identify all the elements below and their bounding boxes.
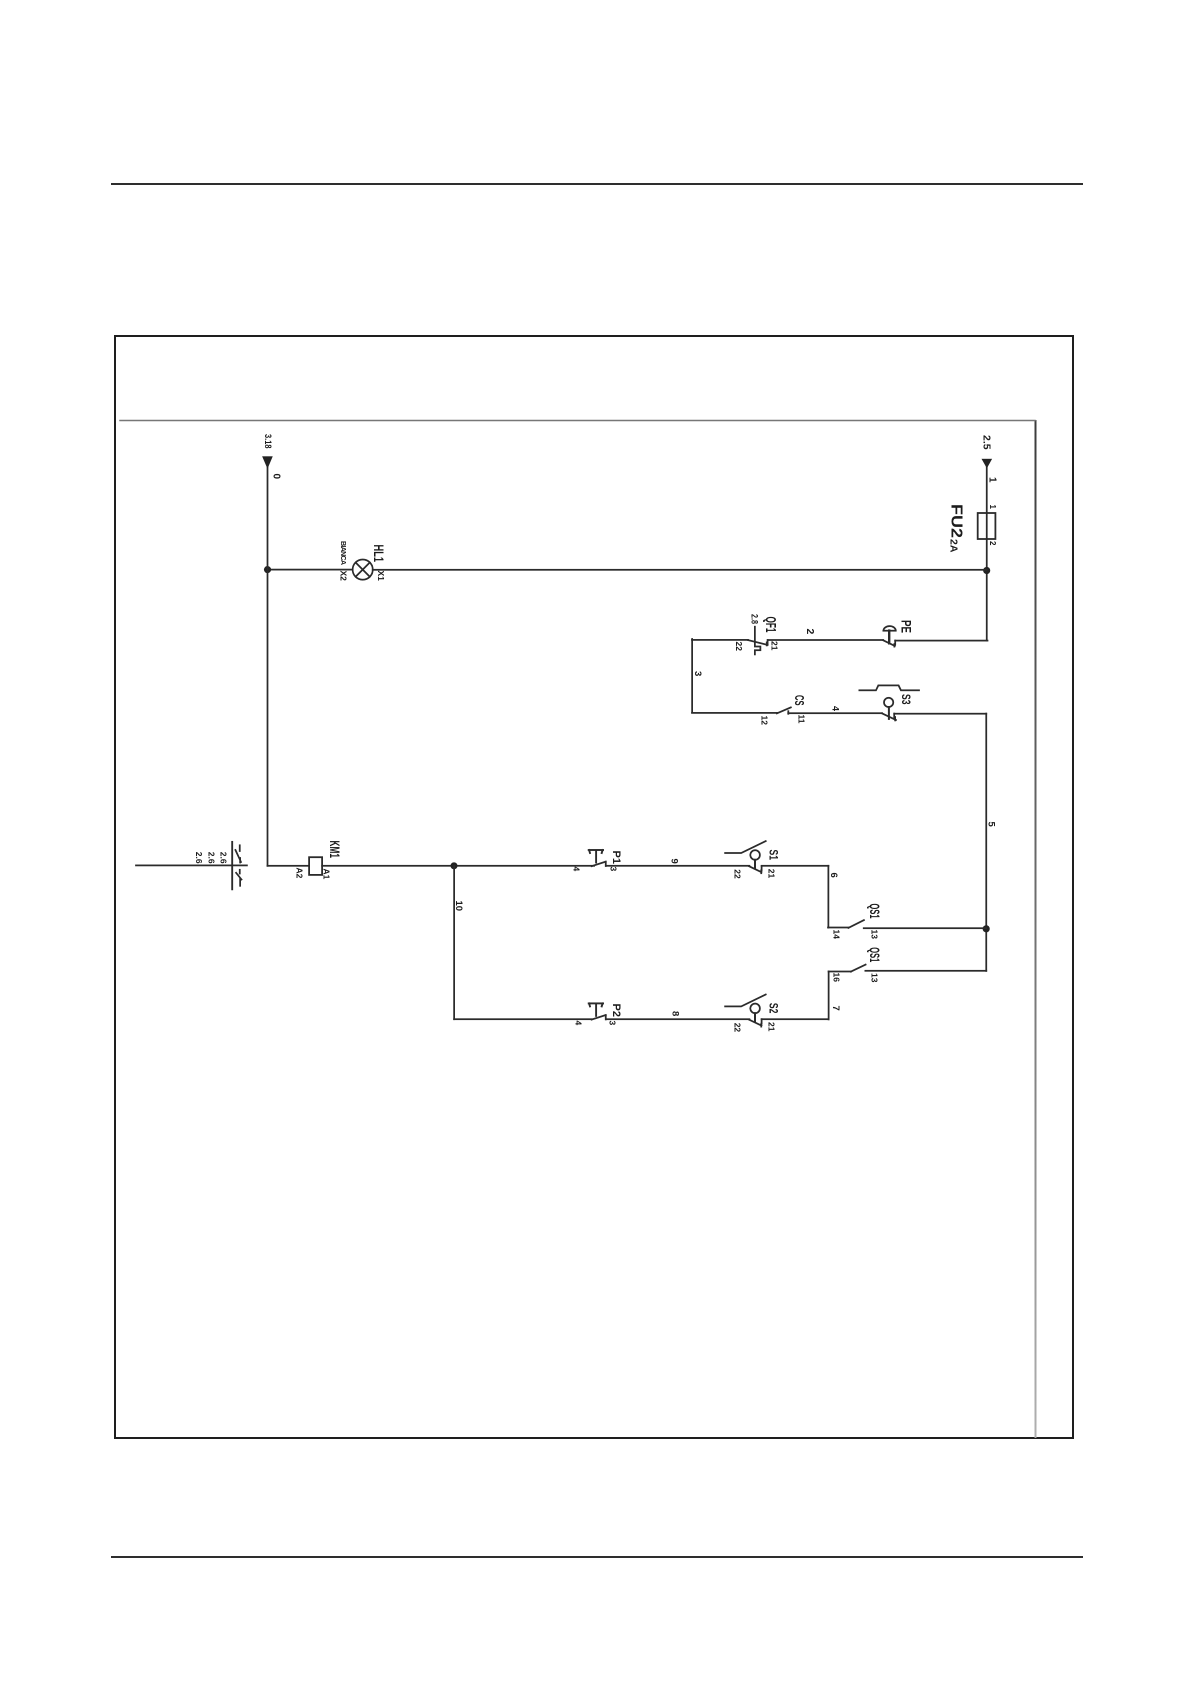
svg-text:11: 11 (797, 715, 807, 724)
feed arrow N (262, 456, 273, 469)
KM1 crossref contact a (235, 845, 241, 862)
svg-text:A1: A1 (322, 869, 332, 880)
svg-text:22: 22 (733, 1023, 743, 1033)
PE contact blade (883, 640, 895, 646)
bottom rule (111, 1556, 1083, 1558)
wire 3 jog (691, 639, 693, 712)
figure border frame (114, 335, 1074, 1439)
PE right terminal hook (894, 641, 896, 645)
S3 contact blade (882, 713, 896, 720)
node A (fuse/lamp tee) (983, 567, 990, 574)
svg-text:3: 3 (609, 867, 619, 872)
svg-text:21: 21 (767, 1022, 777, 1032)
wire 6 jog (827, 866, 829, 928)
svg-text:2.6: 2.6 (194, 852, 204, 864)
wire 4 segment (788, 712, 882, 714)
svg-text:4: 4 (574, 1021, 584, 1026)
lamp HL1 (353, 560, 373, 580)
wire 2 segment (768, 639, 883, 641)
wire top rail segment B (985, 714, 987, 971)
S2 contact blade (749, 1020, 761, 1027)
svg-text:12: 12 (760, 716, 770, 726)
svg-text:5: 5 (986, 822, 997, 828)
svg-text:4: 4 (572, 867, 582, 872)
svg-text:22: 22 (733, 869, 743, 879)
P1 stem (595, 851, 597, 863)
P2 stem (595, 1004, 597, 1016)
svg-text:X2: X2 (339, 571, 349, 582)
wire 7 jog (828, 971, 830, 1019)
wire QS1b lower (829, 971, 851, 973)
wire QS1b rail stub (865, 970, 986, 972)
S2 lever (725, 995, 766, 1007)
svg-text:2: 2 (804, 629, 816, 635)
wire rung PE/QF1 upper (895, 640, 987, 642)
svg-text:QF1: QF1 (762, 617, 778, 633)
lamp cross (356, 563, 370, 577)
sheet left edge (120, 420, 1035, 422)
wire lamp rung lower (268, 569, 353, 571)
QF1 actuator with breaker hook (755, 627, 761, 655)
wire S3 to rail (894, 713, 986, 715)
svg-text:13: 13 (870, 973, 880, 983)
wire lamp rung upper (373, 569, 987, 571)
wire top rail segment A (986, 466, 988, 641)
svg-text:PE: PE (899, 620, 914, 633)
S2 knob (750, 1004, 760, 1014)
svg-text:16: 16 (832, 973, 842, 983)
svg-text:S1: S1 (767, 850, 781, 861)
S2 right terminal hook (761, 1019, 763, 1024)
fuse FU2 (978, 513, 996, 539)
S1 knob (750, 850, 760, 860)
wire 9 segment (606, 865, 749, 867)
QF1 right terminal hook (767, 640, 769, 645)
KM1 crossref bar (231, 842, 233, 889)
svg-text:2A: 2A (948, 539, 960, 553)
coil KM1 (309, 857, 322, 875)
wire 13a segment (864, 927, 987, 929)
node B (QS1 tee) (983, 925, 990, 932)
S3 maintained actuator bar (859, 685, 919, 690)
S3 knob (884, 698, 893, 707)
svg-text:13: 13 (870, 930, 880, 940)
svg-text:CS: CS (792, 695, 807, 706)
svg-text:2.8: 2.8 (750, 614, 760, 624)
svg-text:3: 3 (608, 1021, 618, 1026)
svg-text:7: 7 (830, 1006, 841, 1011)
wire P2 lower (454, 1018, 592, 1020)
svg-text:3: 3 (692, 671, 703, 676)
svg-text:HL1: HL1 (371, 545, 387, 563)
QF1 contact blade (748, 640, 768, 645)
svg-text:2: 2 (988, 541, 997, 546)
svg-text:3.18: 3.18 (263, 434, 273, 449)
PE mushroom cap (883, 626, 895, 631)
top rule (111, 183, 1083, 185)
svg-text:8: 8 (670, 1011, 681, 1016)
svg-text:A2: A2 (295, 868, 305, 879)
S2 stem (754, 1013, 756, 1022)
KM1 crossref stem line (136, 864, 247, 866)
S1 stem (754, 860, 756, 869)
S3 stem (888, 707, 890, 719)
wire KM1 rung mid (322, 865, 594, 867)
svg-text:S3: S3 (899, 694, 913, 705)
svg-text:P2: P2 (610, 1004, 622, 1017)
svg-text:BIANCA: BIANCA (339, 541, 346, 565)
svg-text:QS1: QS1 (867, 904, 882, 919)
P2 contact blade (592, 1015, 606, 1020)
wire KM1 rung lower (268, 865, 310, 867)
wire 3 vertical (692, 639, 748, 641)
svg-text:KM1: KM1 (327, 841, 342, 859)
S1 contact blade (749, 866, 761, 873)
svg-text:2.6: 2.6 (219, 852, 229, 864)
svg-text:10: 10 (453, 901, 464, 912)
svg-text:S2: S2 (767, 1003, 781, 1014)
wire QS1a lower (828, 927, 849, 929)
wire 8 segment (606, 1018, 749, 1020)
svg-text:P1: P1 (610, 851, 622, 864)
P2 tee bar (589, 1003, 603, 1006)
P1 tee bar (589, 850, 603, 853)
wire 6 segment (762, 865, 829, 867)
wire S2 upper (762, 1018, 829, 1020)
QS1 contact a blade (848, 920, 864, 928)
svg-text:22: 22 (734, 642, 744, 652)
wire CS lower (692, 712, 777, 714)
svg-text:1: 1 (987, 477, 998, 483)
svg-text:2.6: 2.6 (207, 852, 217, 864)
svg-text:0: 0 (271, 474, 282, 480)
CS fixed tick (787, 711, 789, 714)
svg-text:2.5: 2.5 (981, 435, 993, 450)
svg-text:X1: X1 (376, 571, 386, 582)
node D (wire10 tee) (451, 862, 458, 869)
wire 10 horizontal (453, 866, 455, 1019)
svg-text:9: 9 (669, 859, 680, 864)
KM1 crossref contact b (236, 870, 241, 886)
sheet top edge (1035, 421, 1037, 1437)
P1 contact blade (592, 862, 606, 867)
svg-text:14: 14 (832, 930, 842, 940)
svg-text:1: 1 (988, 505, 997, 510)
PE stem (888, 631, 890, 644)
CS contact blade (777, 707, 791, 713)
node C (lamp/neutral tee) (264, 566, 271, 573)
S3 right terminal hook (893, 714, 895, 718)
wire bottom rail (267, 467, 269, 866)
svg-text:6: 6 (828, 873, 839, 878)
S1 right terminal hook (761, 866, 763, 870)
svg-text:21: 21 (767, 869, 777, 879)
QS1 contact b blade (851, 965, 866, 972)
S1 lever (725, 841, 766, 853)
svg-text:21: 21 (770, 641, 780, 651)
feed arrow L (982, 459, 993, 469)
svg-text:QS1: QS1 (867, 947, 882, 962)
svg-text:FU2: FU2 (948, 504, 965, 538)
svg-text:4: 4 (831, 706, 841, 711)
